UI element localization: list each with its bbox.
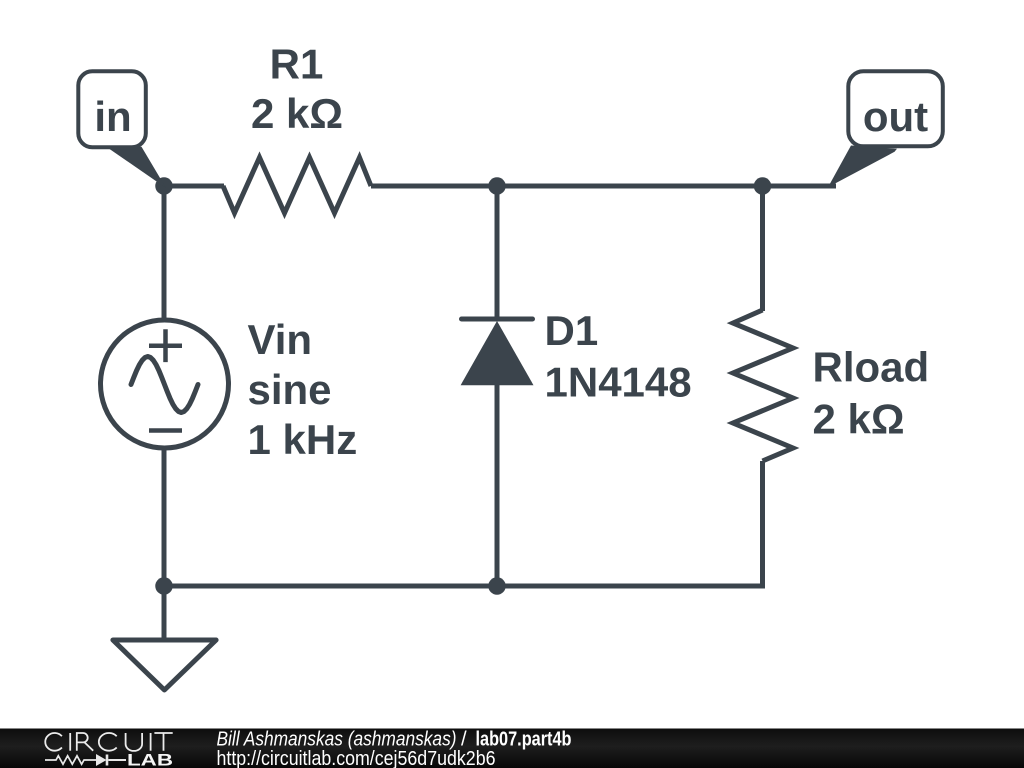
wire: Rload bottom to bottom rail corner [757, 461, 763, 586]
CircuitLab logo wordmark CIRCUIT [45, 733, 172, 751]
flag pointer wedge: in [107, 147, 166, 188]
wire: diode bottom to bottom rail [495, 383, 500, 586]
svg-text:sine: sine [248, 366, 332, 413]
wire: bottom rail [164, 584, 763, 589]
flag pointer wedge: out [828, 146, 897, 188]
wire: in node to R1 left [164, 184, 224, 189]
footer bar [0, 729, 1024, 768]
CircuitLab logo diode triangle [96, 754, 107, 766]
sine wave inside Vin [131, 357, 198, 413]
node dot: diode bottom [488, 577, 506, 595]
svg-text:LAB: LAB [127, 752, 173, 768]
wire: diode top from top rail [495, 186, 500, 317]
svg-text:in: in [94, 93, 131, 140]
svg-text:Vin: Vin [248, 316, 313, 363]
wire: out node down to Rload top [760, 186, 765, 311]
wire: R1 right to out wedge [371, 184, 836, 189]
plus sign inside Vin [149, 329, 182, 362]
svg-text:out: out [863, 93, 928, 140]
diode D1 triangle [461, 321, 534, 385]
node dot: diode top [488, 177, 506, 195]
svg-text:2 kΩ: 2 kΩ [251, 90, 343, 137]
resistor Rload zigzag [733, 310, 793, 461]
wire: Vin bottom to ground node [162, 447, 167, 586]
svg-text:1 kHz: 1 kHz [248, 416, 358, 463]
flag box: out [848, 71, 943, 146]
flag box: in [78, 71, 146, 147]
ground symbol triangle [113, 640, 216, 690]
node dot: ground [155, 577, 173, 595]
wire: in node down to Vin source top [162, 186, 167, 322]
node dot: out [754, 177, 772, 195]
CircuitLab logo resistor-diode glyph [45, 755, 126, 766]
voltage source Vin circle [101, 320, 229, 448]
wire: ground stem [162, 586, 167, 638]
node dot: in [155, 177, 173, 195]
svg-text:D1: D1 [545, 307, 599, 354]
resistor R1 zigzag [223, 158, 371, 214]
svg-text:1N4148: 1N4148 [545, 359, 692, 406]
minus sign inside Vin [149, 428, 182, 433]
svg-text:R1: R1 [270, 41, 324, 88]
svg-text:http://circuitlab.com/cej56d7u: http://circuitlab.com/cej56d7udk2b6 [217, 748, 496, 768]
svg-text:2 kΩ: 2 kΩ [813, 396, 905, 443]
diode D1 cathode bar [462, 317, 533, 322]
svg-text:Rload: Rload [813, 344, 930, 391]
